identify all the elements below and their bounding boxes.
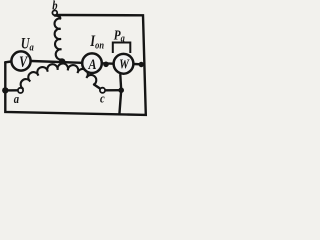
svg-text:Pa: Pa	[114, 27, 125, 44]
svg-text:c: c	[100, 92, 105, 106]
svg-text:Iоп: Iоп	[89, 33, 104, 52]
svg-text:A: A	[88, 56, 97, 73]
svg-text:Ua: Ua	[21, 36, 34, 54]
svg-text:b: b	[52, 0, 57, 13]
svg-text:W: W	[119, 56, 130, 71]
svg-text:a: a	[14, 92, 19, 106]
